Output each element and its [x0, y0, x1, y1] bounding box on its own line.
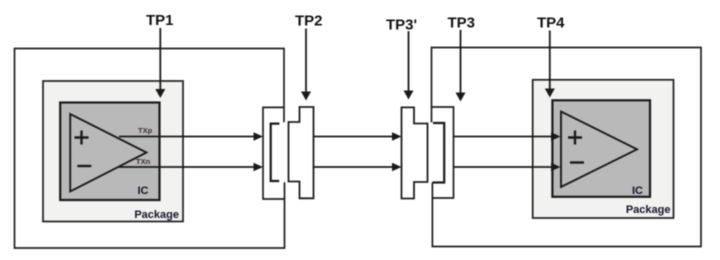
- arrowhead cable TXn into plug P2: [392, 163, 402, 171]
- plus sign (U2 non-inverting): [568, 131, 582, 145]
- svg-text:TP1: TP1: [146, 12, 174, 29]
- connector J2 receptacle contact bracket: [432, 123, 444, 183]
- op-amp U1 (transmitter driver triangle): [70, 114, 146, 192]
- probe arrow TP3 head: [456, 93, 466, 102]
- probe arrow TP2 stem: [305, 29, 307, 94]
- arrowhead RX TXp into receiver: [551, 132, 561, 140]
- package U2 (receiver package): [533, 80, 674, 218]
- svg-text:Package: Package: [134, 209, 179, 221]
- svg-text:TP3': TP3': [386, 16, 417, 33]
- minus sign (U1 inverting): [77, 165, 91, 167]
- connector P1 cable plug (left end of cable): [289, 107, 314, 198]
- minus sign (U2 inverting): [570, 161, 584, 163]
- wire cable TXn segment: [314, 166, 394, 168]
- probe arrow TP4 head: [545, 89, 555, 98]
- probe arrow TP3' stem: [408, 31, 410, 91]
- wire cable TXp segment: [314, 136, 394, 138]
- svg-text:TXn: TXn: [136, 157, 151, 166]
- arrowhead RX TXn into receiver: [551, 163, 561, 171]
- connector P2 cable plug (right end of cable): [402, 107, 428, 198]
- PCB board 2 (receiver board outline, left edge gapped at connector): [432, 48, 702, 247]
- probe arrow TP3' head: [404, 91, 414, 100]
- svg-text:Package: Package: [626, 204, 671, 216]
- svg-text:TP3: TP3: [448, 14, 476, 31]
- svg-text:TP4: TP4: [537, 15, 565, 32]
- probe arrow TP1 head: [155, 89, 165, 98]
- wire TXn board1 segment: [119, 166, 254, 168]
- svg-text:TP2: TP2: [295, 12, 323, 29]
- connector J2 receptacle shell (board2 edge): [432, 107, 454, 198]
- svg-text:IC: IC: [138, 185, 149, 197]
- arrowhead TXp into connector J1: [254, 132, 264, 140]
- probe arrow TP4 stem: [549, 31, 551, 91]
- op-amp U2 (receiver triangle): [561, 112, 637, 188]
- package U1 (transmitter package): [43, 81, 183, 222]
- arrowhead cable TXp into plug P2: [392, 132, 402, 140]
- connector J1 receptacle shell (board1 edge): [263, 107, 285, 199]
- wire TXp board1 segment: [119, 136, 254, 138]
- probe arrow TP3 stem: [460, 30, 462, 94]
- svg-text:IC: IC: [632, 185, 643, 197]
- wire RX TXn segment (board2): [454, 166, 552, 168]
- probe arrow TP1 stem: [159, 28, 161, 90]
- wire RX TXp segment (board2): [454, 136, 552, 138]
- connector J1 receptacle contact bracket: [271, 124, 280, 181]
- svg-text:TXp: TXp: [138, 126, 153, 135]
- arrowhead TXn into connector J1: [254, 163, 264, 171]
- IC U1 (transmitter IC body): [60, 103, 159, 201]
- IC U2 (receiver IC body): [552, 100, 650, 197]
- PCB board 1 (transmitter board outline, right edge gapped at connector): [15, 49, 285, 249]
- plus sign (U1 non-inverting): [75, 131, 89, 145]
- probe arrow TP2 head: [301, 92, 311, 101]
